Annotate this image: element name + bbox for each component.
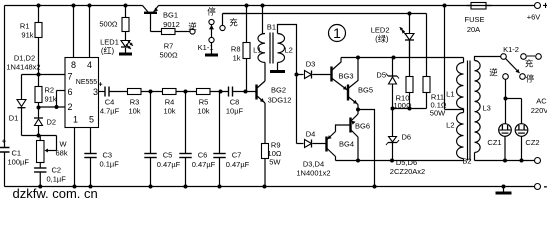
svg-text:91k: 91k xyxy=(21,31,33,40)
svg-text:1k: 1k xyxy=(233,54,241,63)
svg-text:BG5: BG5 xyxy=(358,86,373,95)
svg-text:BG6: BG6 xyxy=(355,122,370,131)
svg-text:5: 5 xyxy=(89,115,94,125)
svg-text:91k: 91k xyxy=(45,95,57,104)
svg-text:100µF: 100µF xyxy=(8,158,30,167)
svg-text:L1: L1 xyxy=(253,46,261,55)
svg-text:dzkfw. com. cn: dzkfw. com. cn xyxy=(13,186,98,200)
svg-text:LED1: LED1 xyxy=(100,38,119,47)
svg-text:1: 1 xyxy=(73,115,78,125)
svg-text:+: + xyxy=(98,80,103,89)
svg-text:+: + xyxy=(2,137,7,146)
svg-text:500Ω: 500Ω xyxy=(159,51,178,60)
svg-text:0.1µF: 0.1µF xyxy=(100,160,120,169)
svg-text:(绿): (绿) xyxy=(375,35,389,44)
svg-text:6: 6 xyxy=(67,87,72,97)
svg-text:+6V: +6V xyxy=(527,13,541,22)
svg-text:10k: 10k xyxy=(163,107,175,116)
svg-text:D1: D1 xyxy=(9,114,19,123)
svg-text:BG1: BG1 xyxy=(163,11,178,20)
svg-text:7: 7 xyxy=(67,72,72,82)
svg-text:100Ω: 100Ω xyxy=(393,101,412,110)
svg-text:4: 4 xyxy=(87,60,92,70)
svg-text:L2: L2 xyxy=(446,121,454,130)
svg-text:0.47µF: 0.47µF xyxy=(192,160,216,169)
svg-text:R3: R3 xyxy=(130,98,140,107)
svg-text:L3: L3 xyxy=(483,104,491,113)
svg-text:1: 1 xyxy=(333,25,341,41)
svg-text:R2: R2 xyxy=(45,86,55,95)
svg-text:C1: C1 xyxy=(12,149,22,158)
svg-text:0.47µF: 0.47µF xyxy=(157,160,181,169)
svg-text:-: - xyxy=(544,181,547,193)
svg-text:W: W xyxy=(60,140,68,149)
svg-text:3DG12: 3DG12 xyxy=(268,96,292,105)
svg-text:9012: 9012 xyxy=(163,20,180,29)
svg-text:10µF: 10µF xyxy=(226,107,244,116)
svg-text:FUSE: FUSE xyxy=(464,15,484,24)
svg-text:D2: D2 xyxy=(47,118,57,127)
svg-text:R1: R1 xyxy=(20,22,30,31)
svg-text:K1-2: K1-2 xyxy=(503,45,519,54)
svg-text:8: 8 xyxy=(71,60,76,70)
svg-text:L2: L2 xyxy=(285,46,293,55)
svg-text:0.47µF: 0.47µF xyxy=(226,160,250,169)
svg-text:R7: R7 xyxy=(164,42,174,51)
svg-text:K1-1: K1-1 xyxy=(198,43,214,52)
svg-text:B1: B1 xyxy=(267,23,276,32)
svg-text:D5,D6: D5,D6 xyxy=(396,158,417,167)
svg-text:1N4148x2: 1N4148x2 xyxy=(6,63,40,72)
svg-text:10k: 10k xyxy=(128,107,140,116)
svg-text:C2: C2 xyxy=(52,166,62,175)
svg-text:5W: 5W xyxy=(269,158,281,167)
svg-text:R8: R8 xyxy=(231,45,241,54)
svg-text:3: 3 xyxy=(93,87,98,97)
svg-text:C7: C7 xyxy=(232,151,242,160)
svg-text:LED2: LED2 xyxy=(371,26,390,35)
svg-text:BG3: BG3 xyxy=(338,72,353,81)
svg-text:C3: C3 xyxy=(103,151,113,160)
svg-text:2CZ20Ax2: 2CZ20Ax2 xyxy=(390,167,425,176)
svg-text:D5: D5 xyxy=(376,71,386,80)
svg-text:停: 停 xyxy=(207,7,216,17)
svg-text:20A: 20A xyxy=(467,25,480,34)
svg-text:D3,D4: D3,D4 xyxy=(303,160,324,169)
svg-text:10k: 10k xyxy=(197,107,209,116)
svg-text:2: 2 xyxy=(67,102,72,112)
svg-text:逆: 逆 xyxy=(489,68,498,78)
svg-text:L1: L1 xyxy=(446,90,454,99)
svg-text:R5: R5 xyxy=(199,98,209,107)
svg-text:BG4: BG4 xyxy=(339,140,354,149)
svg-text:C6: C6 xyxy=(198,151,208,160)
svg-text:D3: D3 xyxy=(306,60,316,69)
svg-text:D4: D4 xyxy=(306,130,316,139)
svg-text:C4: C4 xyxy=(105,98,115,107)
svg-text:50W: 50W xyxy=(430,109,446,118)
svg-text:BG2: BG2 xyxy=(271,86,286,95)
svg-text:NE555: NE555 xyxy=(76,79,98,86)
svg-text:1N4001x2: 1N4001x2 xyxy=(296,169,330,178)
svg-text:+: + xyxy=(543,1,547,12)
svg-text:B2: B2 xyxy=(462,157,471,166)
svg-text:68k: 68k xyxy=(56,149,68,158)
svg-text:D6: D6 xyxy=(402,133,412,142)
svg-text:0,1µF: 0,1µF xyxy=(47,175,67,184)
svg-text:CZ2: CZ2 xyxy=(525,138,539,147)
svg-text:D1,D2: D1,D2 xyxy=(14,54,35,63)
svg-text:充: 充 xyxy=(229,18,238,28)
svg-text:C8: C8 xyxy=(230,98,240,107)
svg-text:R4: R4 xyxy=(165,98,175,107)
svg-text:220V: 220V xyxy=(531,106,547,115)
svg-text:停: 停 xyxy=(526,74,535,84)
svg-text:CZ1: CZ1 xyxy=(487,138,501,147)
svg-text:C5: C5 xyxy=(163,151,173,160)
svg-text:4.7µF: 4.7µF xyxy=(100,107,120,116)
svg-text:AC: AC xyxy=(536,97,547,106)
svg-text:充: 充 xyxy=(525,59,534,69)
svg-text:500Ω: 500Ω xyxy=(99,20,118,29)
svg-text:逆: 逆 xyxy=(188,22,197,32)
svg-text:(红): (红) xyxy=(101,46,115,56)
